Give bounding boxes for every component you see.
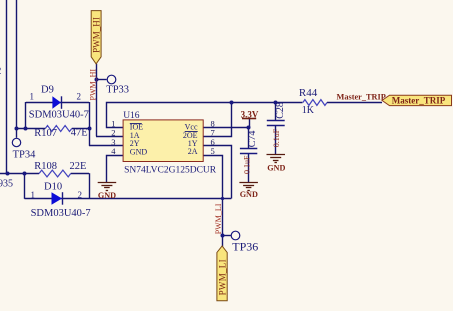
svg-text:R44: R44 xyxy=(299,87,318,99)
wire pin6 xyxy=(204,146,232,199)
maroon texts xyxy=(98,93,446,201)
wire pin4 bracket xyxy=(107,156,124,183)
svg-text:GND: GND xyxy=(267,164,285,173)
svg-text:PWM_LI: PWM_LI xyxy=(218,259,228,295)
wire xyxy=(89,198,231,200)
testpoint TP33 xyxy=(107,75,116,84)
IC U16 body xyxy=(123,120,203,162)
node rail C28 xyxy=(274,101,278,105)
wire TP33 stub xyxy=(96,79,107,81)
svg-text:PWM_HI: PWM_HI xyxy=(91,17,101,53)
node rail pin7 xyxy=(230,101,234,105)
resistor R107 zigzag xyxy=(45,126,72,132)
capacitor C74 plates xyxy=(240,149,257,154)
svg-text:C28: C28 xyxy=(275,102,286,119)
wire xyxy=(96,136,123,138)
wire xyxy=(72,128,89,130)
node R108 left xyxy=(6,172,10,176)
svg-text:TP34: TP34 xyxy=(13,149,37,160)
svg-text:R107: R107 xyxy=(34,128,57,139)
svg-text:1K: 1K xyxy=(302,105,315,116)
svg-text:SN74LVC2G125DCUR: SN74LVC2G125DCUR xyxy=(124,165,217,175)
wire xyxy=(89,128,91,146)
svg-text:C74: C74 xyxy=(247,131,258,148)
wire pin8 xyxy=(203,127,249,129)
svg-text:5: 5 xyxy=(210,146,214,156)
svg-text:SDM03U40-7: SDM03U40-7 xyxy=(31,208,91,219)
svg-text:Master_TRIP: Master_TRIP xyxy=(337,93,386,102)
svg-text:2: 2 xyxy=(77,92,82,102)
svg-text:D9: D9 xyxy=(41,85,54,96)
resistor R108 zigzag xyxy=(39,170,71,177)
svg-text:2: 2 xyxy=(0,65,1,77)
svg-text:TP36: TP36 xyxy=(232,240,258,254)
svg-text:935: 935 xyxy=(0,178,13,189)
port Master_TRIP xyxy=(382,95,452,105)
wire xyxy=(89,173,91,199)
wire TP34 stub xyxy=(16,128,18,138)
resistor R44 zigzag xyxy=(303,100,327,106)
node Vcc 3.3V xyxy=(247,126,251,130)
wire xyxy=(89,102,91,128)
wire xyxy=(16,0,18,128)
testpoint TP34 xyxy=(12,138,20,146)
svg-text:GND: GND xyxy=(240,190,258,199)
wire xyxy=(25,198,90,200)
wire 3.3V stem xyxy=(249,119,251,128)
wire PWM_HI vertical xyxy=(96,64,98,137)
svg-text:3.3V: 3.3V xyxy=(241,110,259,120)
svg-text:2A: 2A xyxy=(188,147,198,156)
wire xyxy=(24,173,26,199)
capacitor C28 plates xyxy=(267,121,285,126)
svg-text:SDM03U40-7: SDM03U40-7 xyxy=(29,110,89,121)
wire xyxy=(71,173,89,175)
svg-text:1: 1 xyxy=(31,190,36,200)
node TP36 junction xyxy=(221,234,225,238)
node TP33 junction xyxy=(95,78,99,82)
node D9 box left xyxy=(24,127,28,131)
ground C28 GND xyxy=(267,155,286,163)
svg-text:PWM_HI: PWM_HI xyxy=(88,69,97,101)
svg-text:1: 1 xyxy=(30,92,35,102)
wire xyxy=(25,102,27,128)
svg-text:2: 2 xyxy=(78,190,83,200)
node D10 left xyxy=(23,172,27,176)
svg-text:D10: D10 xyxy=(44,182,62,193)
wire pin5 xyxy=(204,156,223,247)
wire xyxy=(89,145,123,147)
wire C74 top xyxy=(248,128,250,149)
svg-text:TP33: TP33 xyxy=(106,84,129,95)
diode D9 xyxy=(52,96,61,109)
wire xyxy=(0,173,39,175)
svg-text:22E: 22E xyxy=(70,161,87,172)
svg-text:Master_TRIP: Master_TRIP xyxy=(392,96,446,106)
svg-text:4: 4 xyxy=(111,146,116,156)
ground C74 GND xyxy=(239,183,258,191)
diode D10 xyxy=(52,192,63,205)
wire xyxy=(26,102,89,104)
wire C28 top xyxy=(275,102,277,120)
wire C74 bottom xyxy=(248,154,250,183)
ground pin4 GND xyxy=(98,183,117,191)
svg-text:GND: GND xyxy=(98,191,116,200)
wire pin1 bracket xyxy=(107,103,303,128)
node TP34 junction xyxy=(15,127,19,131)
testpoint TP36 xyxy=(231,231,240,240)
wire xyxy=(17,128,46,130)
flag PWM_LI xyxy=(217,246,227,301)
flag PWM_HI xyxy=(91,11,101,64)
svg-text:PWM_LI: PWM_LI xyxy=(214,203,223,234)
node D9 box right xyxy=(88,127,92,131)
wire TP36 stub xyxy=(222,235,231,237)
wire xyxy=(6,0,8,173)
text labels navy xyxy=(0,65,318,254)
svg-text:U16: U16 xyxy=(123,111,140,121)
svg-text:0.1uF: 0.1uF xyxy=(272,128,281,147)
node pin5/flag cross xyxy=(221,197,224,200)
svg-text:0.1uF: 0.1uF xyxy=(242,155,251,174)
wire C28 bottom xyxy=(275,125,277,154)
wire pin7 xyxy=(204,103,232,137)
power 3.3V bar xyxy=(242,118,256,120)
svg-text:GND: GND xyxy=(130,147,148,156)
svg-text:R108: R108 xyxy=(34,161,57,172)
wire R44 to port xyxy=(327,102,382,104)
svg-text:47E: 47E xyxy=(71,127,88,138)
